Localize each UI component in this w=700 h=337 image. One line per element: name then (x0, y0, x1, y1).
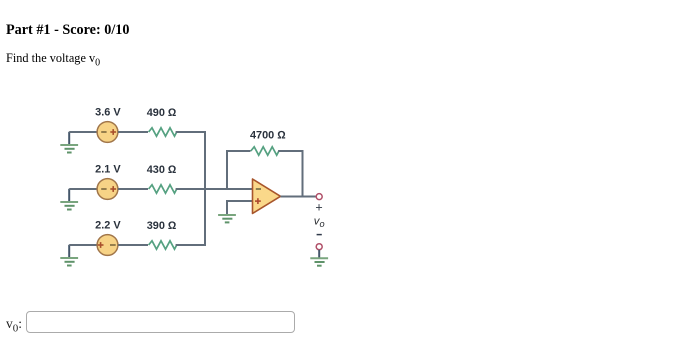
wire (118, 244, 148, 246)
wire op-amp plus input (227, 201, 253, 215)
op-amp U1 (253, 179, 281, 214)
wire feedback right vertical (302, 150, 304, 198)
svg-text:390 Ω: 390 Ω (147, 220, 177, 232)
ground G4 (218, 215, 236, 222)
svg-text:430 Ω: 430 Ω (147, 164, 177, 176)
voltage source V1 3.6V (97, 122, 118, 143)
resistor R2 430 (149, 185, 177, 193)
answer input box (26, 311, 295, 333)
voltage source V2 2.1V (97, 179, 118, 200)
svg-text:490 Ω: 490 Ω (147, 107, 177, 119)
wire (118, 188, 148, 190)
wire (176, 131, 206, 133)
wire bus vertical (204, 131, 206, 246)
ground G2 (60, 189, 78, 210)
ground G3 (60, 245, 78, 266)
svg-text:vo: vo (314, 216, 325, 229)
resistor R1 490 (149, 128, 177, 136)
wire feedback top right (278, 150, 302, 152)
voltage source V3 2.2V reversed (97, 235, 118, 256)
wire feedback left vertical (226, 150, 228, 190)
answer label v0: (6, 316, 22, 335)
resistor R4 4700 (251, 147, 279, 155)
wire (69, 131, 97, 133)
wire (176, 188, 253, 190)
terminal T1 (316, 194, 322, 200)
subtitle (6, 51, 100, 68)
terminal T2 (316, 244, 322, 250)
label minus (317, 234, 322, 236)
wire (69, 188, 97, 190)
resistor R3 390 (149, 241, 177, 249)
svg-text:4700 Ω: 4700 Ω (250, 130, 286, 142)
ground G1 (60, 132, 78, 153)
wire (176, 244, 206, 246)
svg-text:2.2 V: 2.2 V (95, 220, 121, 232)
svg-text:2.1 V: 2.1 V (95, 164, 121, 176)
title (6, 22, 129, 39)
svg-text:+: + (315, 201, 322, 215)
wire output (281, 196, 316, 198)
wire feedback top left (226, 150, 251, 152)
ground G5 (310, 258, 328, 266)
wire (69, 244, 97, 246)
wire (118, 131, 148, 133)
svg-text:3.6 V: 3.6 V (95, 107, 121, 119)
wire terminal to ground (318, 250, 320, 258)
